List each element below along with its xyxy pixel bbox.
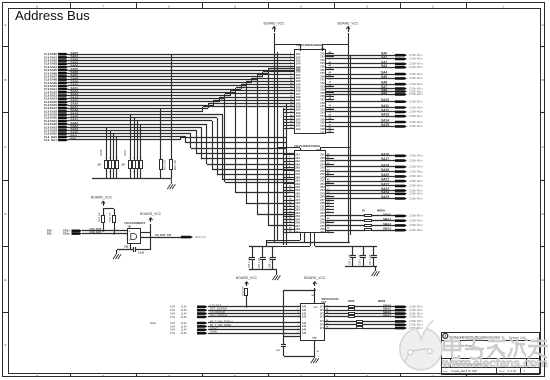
svg-text:GND: GND	[312, 338, 317, 340]
svg-text:SA18: SA18	[381, 163, 389, 167]
off-page connector CS_EXT output	[181, 235, 206, 239]
svg-text:BOARD_VCC: BOARD_VCC	[263, 22, 285, 26]
resistor R211	[170, 159, 178, 178]
svg-text:9 of 58: 9 of 58	[508, 371, 517, 373]
svg-text:Tuesday, March 04, 2008: Tuesday, March 04, 2008	[451, 370, 478, 373]
svg-text:C89 0.1uF: C89 0.1uF	[349, 254, 351, 265]
svg-text:2,5Sh 4Dm: 2,5Sh 4Dm	[409, 76, 423, 80]
svg-text:2,5Sh 4Dm: 2,5Sh 4Dm	[409, 158, 423, 162]
wire U5 power pin connections	[274, 44, 348, 51]
off-page connectors IO group	[395, 214, 423, 232]
off-page connectors U7A lower outputs	[395, 319, 423, 330]
svg-text:2,5Sh 4Dm: 2,5Sh 4Dm	[409, 192, 423, 196]
svg-text:C: C	[542, 145, 544, 149]
wire taps to pull resistor networks	[107, 54, 172, 160]
pin stubs U7A	[298, 305, 330, 335]
svg-text:2,5Sh 4Dm: 2,5Sh 4Dm	[409, 308, 423, 312]
wire cap rails left group	[249, 247, 277, 276]
wires U5 outputs SA0-SA15 with off-page connectors	[326, 52, 423, 129]
watermark chinese characters	[444, 336, 548, 359]
series resistor pack RP28 on U7A outputs	[325, 300, 395, 317]
svg-text:RST_DDRAM: RST_DDRAM	[210, 307, 227, 311]
wire bus A6-A18 staircase runs to U5	[68, 69, 295, 112]
svg-text:MSH 2,9: MSH 2,9	[195, 235, 206, 239]
svg-text:2,5Sh 4Dm: 2,5Sh 4Dm	[409, 100, 423, 104]
svg-text:R212 10K: R212 10K	[242, 286, 244, 296]
svg-text:F: F	[5, 343, 7, 347]
svg-text:SA1: SA1	[381, 55, 387, 59]
power symbol BOARD_VCC for pull-up R212	[236, 276, 258, 286]
svg-text:2,5Sh 4Dm: 2,5Sh 4Dm	[409, 57, 423, 61]
svg-text:R211 10K: R211 10K	[175, 159, 177, 170]
svg-text:2Y1: 2Y1	[320, 231, 325, 234]
svg-text:SBA0: SBA0	[383, 212, 391, 216]
svg-text:RP26: RP26	[100, 149, 103, 156]
svg-text:15,9: 15,9	[44, 138, 50, 142]
ground for U7A	[311, 358, 314, 363]
capacitor C85 on U8 supply	[117, 244, 152, 255]
off-page connectors DDR control inputs	[170, 306, 208, 319]
company name text	[450, 335, 525, 339]
svg-text:SA20: SA20	[381, 173, 389, 177]
svg-text:2,5Sh 4Dm: 2,5Sh 4Dm	[409, 105, 423, 109]
svg-text:VCC: VCC	[313, 307, 318, 309]
wire bus A19-BA1 drop-down runs to U6	[68, 115, 294, 181]
svg-text:C88 0.1uF: C88 0.1uF	[270, 257, 272, 268]
svg-text:2,5Sh 4Dm: 2,5Sh 4Dm	[409, 319, 423, 323]
svg-text:CS1 EXT: CS1 EXT	[210, 303, 222, 307]
svg-text:SBA3: SBA3	[383, 227, 391, 231]
wire T-drops from staircase to U6	[225, 73, 295, 226]
svg-text:SA11: SA11	[381, 104, 389, 108]
wire U7A ground	[314, 340, 316, 358]
svg-text:11,54: 11,54	[181, 332, 188, 335]
svg-text:C: C	[4, 145, 6, 149]
svg-text:R210 10K: R210 10K	[165, 159, 167, 170]
svg-text:R206 10K: R206 10K	[110, 212, 112, 222]
svg-text:2,5Sh 4Dm: 2,5Sh 4Dm	[409, 219, 423, 223]
svg-text:D: D	[542, 212, 544, 216]
svg-text:2,5Sh 4Dm: 2,5Sh 4Dm	[409, 82, 423, 86]
svg-text:BOARD_VCC: BOARD_VCC	[91, 196, 113, 200]
resistor R205 pull-up	[99, 208, 105, 232]
capacitor C87	[259, 247, 266, 270]
power symbol BOARD_VCC for U8	[140, 212, 162, 250]
svg-text:ESd+: ESd+	[63, 232, 70, 236]
svg-text:RAS_DDRAM: RAS_DDRAM	[210, 313, 228, 317]
svg-text:A: A	[542, 23, 544, 27]
svg-text:SA9: SA9	[381, 91, 387, 95]
wires DDR control inputs to U7A	[208, 303, 301, 317]
svg-text:R205 10K: R205 10K	[99, 212, 101, 222]
title block document fields	[443, 344, 534, 373]
wire collector rails left of U6	[284, 104, 287, 245]
svg-text:2,5Sh 4Dm: 2,5Sh 4Dm	[409, 65, 423, 69]
svg-text:2,5Sh 4Dm: 2,5Sh 4Dm	[409, 165, 423, 169]
svg-text:SA15: SA15	[381, 123, 389, 127]
svg-text:2,5Sh 4Dm: 2,5Sh 4Dm	[409, 169, 423, 173]
svg-text:1Y1: 1Y1	[320, 327, 325, 330]
power symbol BOARD_VCC for U7A	[304, 276, 326, 304]
svg-text:BT_T_MD_DDRLU: BT_T_MD_DDRLU	[210, 320, 233, 324]
svg-text:2,5Sh 4Dm: 2,5Sh 4Dm	[409, 62, 423, 66]
svg-text:C90 0.1uF: C90 0.1uF	[360, 254, 362, 265]
svg-text:0.1uF: 0.1uF	[138, 252, 145, 255]
svg-text:74LVC162244ADGG: 74LVC162244ADGG	[296, 43, 322, 47]
wires CS inputs to gate U8	[82, 227, 128, 240]
off-page connectors U7A outputs	[395, 305, 423, 319]
svg-text:Date:: Date:	[443, 370, 449, 373]
svg-text:BOARD_VCC: BOARD_VCC	[304, 276, 326, 280]
ground for resistor networks	[167, 184, 170, 189]
svg-text:BT_T_WD_DDRL: BT_T_WD_DDRL	[210, 323, 232, 327]
svg-text:C86 0.1uF: C86 0.1uF	[249, 257, 251, 268]
svg-text:SBA1: SBA1	[383, 217, 391, 221]
capacitor C86	[249, 247, 255, 270]
capacitor C92 on U7A supply	[276, 337, 315, 357]
svg-text:2,5Sh 4Dm: 2,5Sh 4Dm	[409, 114, 423, 118]
svg-text:SA10: SA10	[381, 98, 389, 102]
wire U6 power pin connections	[278, 148, 350, 151]
svg-text:2,5Sh 4Dm: 2,5Sh 4Dm	[409, 92, 423, 96]
svg-text:SA3: SA3	[381, 64, 387, 68]
svg-text:BOARD_VCC: BOARD_VCC	[236, 276, 258, 280]
svg-text:1Y1: 1Y1	[320, 132, 325, 135]
AND gate U8 74LVC1G08	[124, 221, 146, 243]
svg-text:2,5Sh 4Dm: 2,5Sh 4Dm	[409, 110, 423, 114]
svg-text:2,5Sh 4Dm: 2,5Sh 4Dm	[409, 154, 423, 158]
svg-text:9,54: 9,54	[170, 332, 175, 335]
wire OE rail left	[278, 52, 351, 240]
svg-text:1A2: 1A2	[296, 128, 301, 131]
capacitor C90	[360, 247, 366, 266]
svg-text:C91 0.1uF: C91 0.1uF	[370, 254, 372, 265]
svg-text:11,54: 11,54	[181, 316, 188, 319]
svg-text:2,5Sh 4Dm: 2,5Sh 4Dm	[409, 124, 423, 128]
svg-text:E: E	[5, 278, 7, 282]
wires DDR data-mask inputs to U7A	[208, 320, 301, 334]
svg-text:2,5Sh 4Dm: 2,5Sh 4Dm	[409, 72, 423, 76]
resistor network RP26	[98, 149, 119, 178]
wire U7A output-enable pull	[284, 290, 316, 337]
svg-text:BDWT: BDWT	[210, 326, 218, 330]
wire VCC rail bottom interconnect	[257, 233, 351, 247]
svg-text:2,5Sh 4Dm: 2,5Sh 4Dm	[409, 223, 423, 227]
svg-text:2A1: 2A1	[295, 231, 300, 234]
series resistors on IO lines	[326, 209, 395, 231]
series resistors on U7A lower outputs	[325, 321, 395, 329]
ground for U8 circuit	[113, 254, 116, 259]
resistor R206 pull-up	[103, 209, 116, 235]
watermark logo disc	[400, 321, 442, 370]
wire bus A0-A5 straight runs to U5	[68, 55, 295, 71]
svg-text:2,5Sh 4Dm: 2,5Sh 4Dm	[409, 214, 423, 218]
left address bus off-page connectors A0-BA1	[44, 51, 78, 142]
svg-text:C87 0.1uF: C87 0.1uF	[259, 257, 261, 268]
svg-text:SA6: SA6	[381, 81, 387, 85]
svg-text:2A: 2A	[122, 163, 126, 167]
svg-text:U6: U6	[316, 148, 320, 152]
svg-text:E: E	[542, 278, 544, 282]
svg-text:KD4+: KD4+	[150, 322, 157, 325]
svg-text:1A1: 1A1	[302, 316, 307, 319]
svg-text:SA22: SA22	[381, 182, 389, 186]
svg-text:1Y1: 1Y1	[320, 316, 325, 319]
svg-text:2,5Sh 4Dm: 2,5Sh 4Dm	[409, 174, 423, 178]
svg-text:SA25: SA25	[381, 195, 389, 199]
power symbol BOARD_VCC right rail	[337, 22, 359, 244]
company logo	[443, 333, 448, 338]
off-page connectors CS inputs	[47, 229, 82, 236]
svg-text:SA24: SA24	[381, 190, 389, 194]
svg-text:Address Bus: Address Bus	[15, 8, 90, 23]
svg-text:2,5Sh 4Dm: 2,5Sh 4Dm	[409, 53, 423, 57]
svg-text:C85: C85	[124, 246, 129, 249]
svg-text:SA13: SA13	[381, 113, 389, 117]
buffer U5 74LVC162244A	[283, 43, 334, 134]
svg-text:SA14: SA14	[381, 119, 389, 123]
svg-text:SA17: SA17	[381, 157, 389, 161]
svg-text:2,5Sh 4Dm: 2,5Sh 4Dm	[409, 228, 423, 232]
svg-text:SA21: SA21	[381, 178, 389, 182]
svg-text:1A1: 1A1	[302, 332, 307, 335]
svg-text:DQML: DQML	[210, 330, 218, 334]
wire cap rails right group	[345, 247, 377, 272]
svg-text:A: A	[5, 23, 7, 27]
svg-text:2,5Sh 4Dm: 2,5Sh 4Dm	[409, 196, 423, 200]
svg-text:BOARD_VCC: BOARD_VCC	[140, 212, 162, 216]
capacitor C88	[270, 247, 277, 270]
svg-text:RP27: RP27	[124, 149, 127, 156]
svg-text:2,5Sh 4Dm: 2,5Sh 4Dm	[409, 184, 423, 188]
resistor network RP27	[122, 149, 143, 178]
svg-text:U7A: U7A	[322, 301, 327, 304]
svg-text:SA5: SA5	[381, 75, 387, 79]
svg-text:2,5Sh 4Dm: 2,5Sh 4Dm	[409, 120, 423, 124]
ground for left cap group	[272, 275, 275, 280]
svg-text:2A: 2A	[98, 163, 102, 167]
wires U6 outputs SA16-SA25 with off-page connectors	[326, 152, 423, 200]
capacitor C91	[370, 247, 377, 266]
svg-text:2,5Sh 4Dm: 2,5Sh 4Dm	[409, 305, 423, 309]
power symbol BOARD_VCC left rail	[263, 22, 285, 244]
svg-text:B: B	[5, 78, 7, 82]
svg-text:2,5Sh 4Dm: 2,5Sh 4Dm	[409, 179, 423, 183]
svg-text:CS0_EXT: CS0_EXT	[90, 230, 102, 234]
svg-text:SA19: SA19	[381, 168, 389, 172]
svg-text:D: D	[4, 212, 6, 216]
svg-text:SA16: SA16	[381, 152, 389, 156]
svg-text:2,5Sh 4Dm: 2,5Sh 4Dm	[409, 315, 423, 319]
svg-text:U5: U5	[321, 47, 325, 51]
capacitor C89	[349, 247, 356, 266]
svg-text:BA1: BA1	[51, 138, 57, 142]
svg-text:B: B	[542, 78, 544, 82]
svg-text:SBA2: SBA2	[383, 222, 391, 226]
svg-text:BOARD_VCC: BOARD_VCC	[337, 22, 359, 26]
buffer U6 74LVC162244A	[283, 144, 334, 234]
off-page connectors DDR data-mask inputs	[150, 322, 208, 335]
resistor R210	[160, 159, 167, 178]
wire U8 output CS_EXT_CN	[141, 233, 181, 237]
wire resistor commons rail	[92, 178, 171, 180]
svg-text:www.elecfans.com: www.elecfans.com	[441, 356, 548, 370]
svg-text:Sheet: Sheet	[499, 370, 505, 373]
title block frame	[442, 333, 541, 375]
svg-text:EB+: EB+	[47, 232, 53, 236]
power symbol BOARD_VCC for pull-ups	[91, 196, 113, 207]
svg-text:CS_EXT_CN: CS_EXT_CN	[155, 233, 171, 237]
svg-text:BA1: BA1	[71, 137, 77, 141]
ground for right cap group	[372, 271, 375, 276]
svg-text:RP28: RP28	[348, 300, 355, 303]
buffer U7A SN74LVC244A	[301, 289, 339, 353]
resistor R212 pull-up	[242, 286, 247, 308]
svg-text:9,54: 9,54	[170, 316, 175, 319]
svg-text:SBA7: SBA7	[383, 313, 391, 317]
